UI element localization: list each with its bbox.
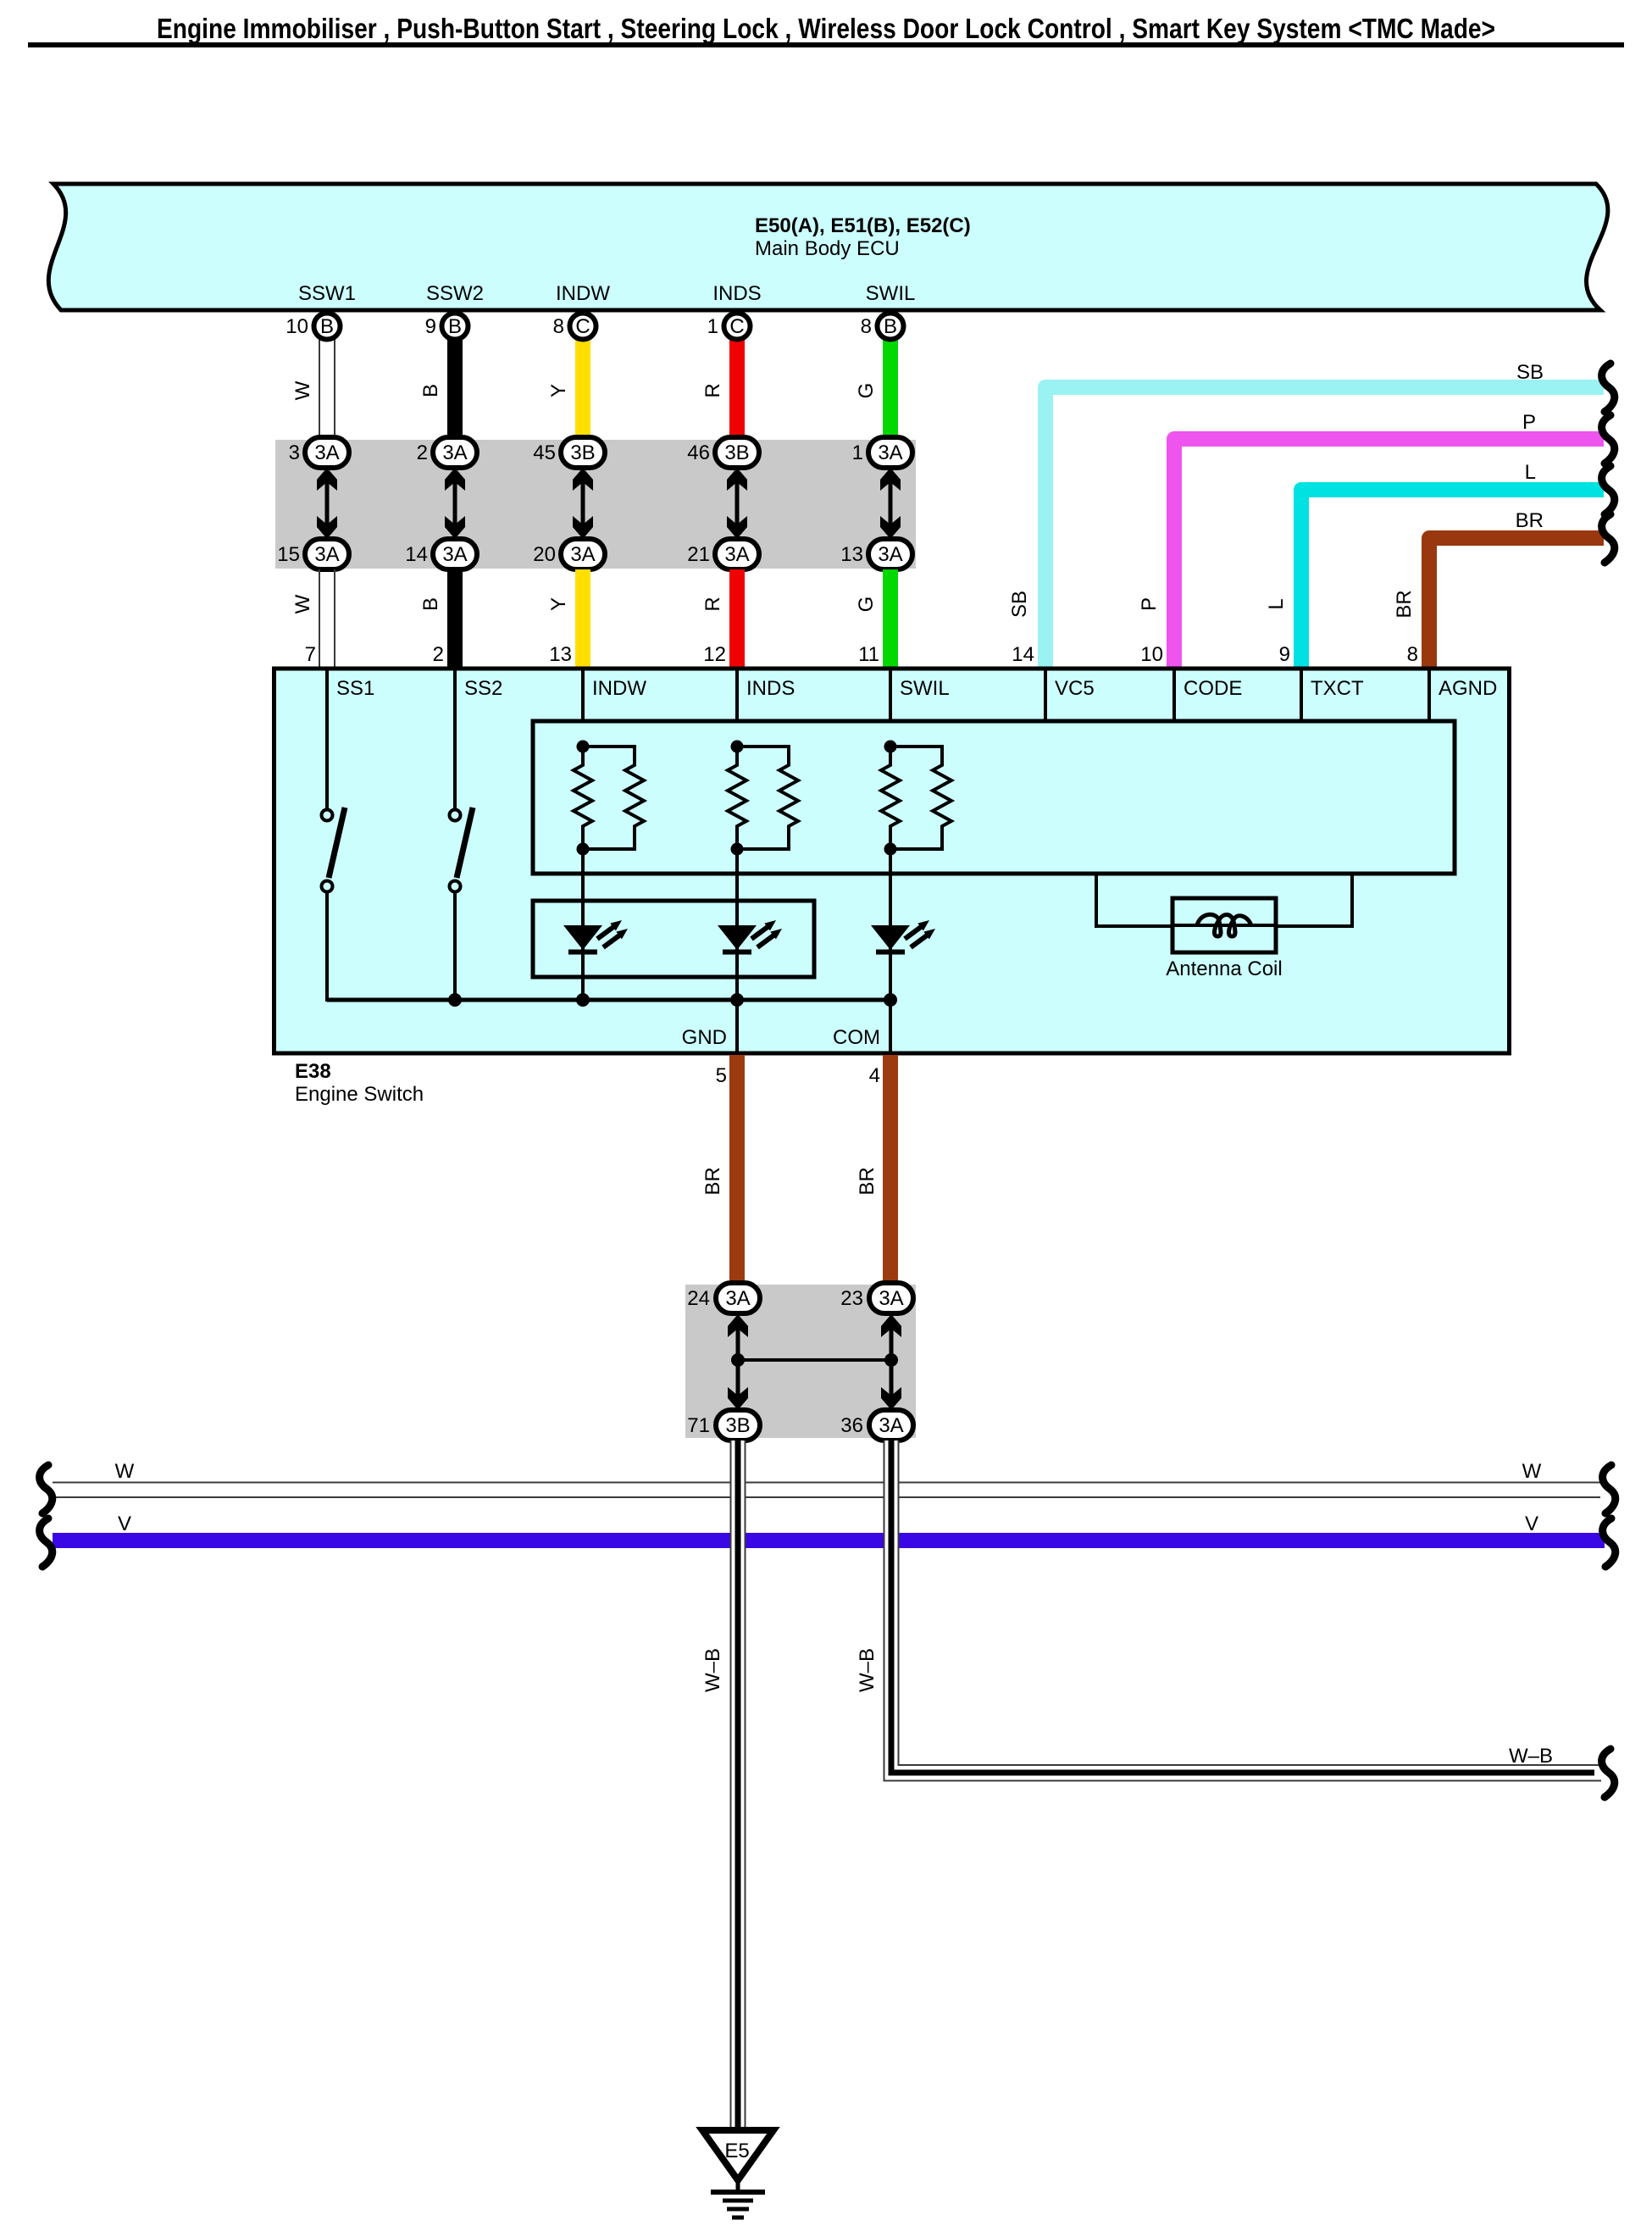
svg-text:P: P: [1138, 597, 1161, 611]
svg-text:B: B: [884, 315, 897, 338]
svg-text:71: 71: [687, 1414, 710, 1437]
svg-text:20: 20: [533, 543, 556, 566]
svg-text:W: W: [291, 594, 314, 613]
svg-text:12: 12: [703, 643, 726, 666]
svg-text:3A: 3A: [878, 441, 902, 464]
svg-text:36: 36: [840, 1414, 863, 1437]
svg-text:2: 2: [417, 441, 428, 464]
svg-text:7: 7: [305, 643, 316, 666]
svg-text:W–B: W–B: [856, 1648, 879, 1692]
svg-text:46: 46: [687, 441, 710, 464]
svg-text:14: 14: [405, 543, 428, 566]
svg-text:1: 1: [707, 315, 718, 338]
svg-text:W: W: [291, 380, 314, 400]
svg-text:SB: SB: [1516, 361, 1544, 384]
svg-text:13: 13: [840, 543, 863, 566]
svg-text:11: 11: [858, 643, 879, 666]
svg-text:3B: 3B: [724, 441, 749, 464]
svg-text:45: 45: [533, 441, 556, 464]
svg-text:10: 10: [285, 315, 308, 338]
svg-text:3A: 3A: [725, 1287, 750, 1310]
svg-text:E5: E5: [724, 2140, 749, 2162]
svg-text:C: C: [729, 315, 744, 338]
svg-text:INDS: INDS: [746, 677, 795, 700]
svg-text:8: 8: [553, 315, 564, 338]
svg-text:INDS: INDS: [712, 282, 761, 305]
svg-text:3A: 3A: [442, 543, 467, 566]
svg-text:3B: 3B: [570, 441, 595, 464]
svg-text:L: L: [1525, 461, 1536, 484]
svg-text:3A: 3A: [570, 543, 595, 566]
svg-text:BR: BR: [701, 1167, 724, 1195]
svg-text:V: V: [118, 1513, 131, 1535]
svg-text:Y: Y: [547, 384, 570, 397]
svg-text:VC5: VC5: [1055, 677, 1095, 700]
svg-text:SSW2: SSW2: [426, 282, 484, 305]
svg-text:9: 9: [425, 315, 436, 338]
svg-text:Antenna Coil: Antenna Coil: [1166, 958, 1282, 980]
svg-text:GND: GND: [682, 1026, 727, 1049]
svg-text:SWIL: SWIL: [900, 677, 950, 700]
svg-text:13: 13: [549, 643, 572, 666]
svg-text:B: B: [448, 315, 462, 338]
svg-text:21: 21: [687, 543, 710, 566]
svg-text:W: W: [115, 1460, 135, 1483]
svg-text:CODE: CODE: [1184, 677, 1242, 700]
svg-text:3A: 3A: [879, 1414, 903, 1437]
svg-text:SWIL: SWIL: [866, 282, 916, 305]
svg-text:2: 2: [433, 643, 444, 666]
svg-text:SS1: SS1: [336, 677, 374, 700]
svg-text:INDW: INDW: [556, 282, 610, 305]
svg-text:3A: 3A: [879, 1287, 903, 1310]
svg-text:B: B: [419, 384, 442, 397]
svg-text:3A: 3A: [314, 441, 339, 464]
svg-text:3A: 3A: [724, 543, 749, 566]
svg-text:9: 9: [1279, 643, 1290, 666]
svg-text:1: 1: [852, 441, 863, 464]
svg-text:3A: 3A: [442, 441, 467, 464]
svg-text:E50(A), E51(B), E52(C): E50(A), E51(B), E52(C): [755, 214, 971, 237]
svg-text:BR: BR: [1393, 590, 1416, 618]
svg-text:3A: 3A: [314, 543, 339, 566]
svg-text:W–B: W–B: [701, 1648, 724, 1692]
svg-text:8: 8: [861, 315, 872, 338]
svg-text:5: 5: [716, 1064, 727, 1087]
svg-text:P: P: [1522, 411, 1536, 434]
svg-text:R: R: [701, 597, 724, 611]
svg-text:B: B: [419, 597, 442, 611]
svg-text:Engine Immobiliser , Push-Butt: Engine Immobiliser , Push-Button Start ,…: [157, 13, 1495, 44]
svg-text:E38: E38: [295, 1060, 331, 1083]
svg-text:W: W: [1522, 1460, 1542, 1483]
svg-text:BR: BR: [856, 1167, 879, 1195]
svg-text:3A: 3A: [878, 543, 902, 566]
svg-text:V: V: [1525, 1513, 1538, 1535]
svg-text:4: 4: [869, 1064, 880, 1087]
svg-text:8: 8: [1407, 643, 1418, 666]
svg-text:COM: COM: [833, 1026, 880, 1049]
svg-text:3: 3: [289, 441, 300, 464]
svg-text:24: 24: [687, 1287, 710, 1310]
svg-text:23: 23: [840, 1287, 863, 1310]
svg-text:AGND: AGND: [1439, 677, 1497, 700]
svg-text:3B: 3B: [725, 1414, 750, 1437]
svg-text:SS2: SS2: [464, 677, 502, 700]
svg-text:Engine Switch: Engine Switch: [295, 1083, 424, 1106]
svg-text:14: 14: [1012, 643, 1034, 666]
svg-text:10: 10: [1140, 643, 1163, 666]
svg-text:G: G: [855, 597, 878, 613]
svg-text:R: R: [701, 383, 724, 397]
svg-text:W–B: W–B: [1509, 1745, 1553, 1768]
svg-text:15: 15: [277, 543, 300, 566]
svg-text:INDW: INDW: [592, 677, 646, 700]
svg-text:C: C: [575, 315, 590, 338]
svg-text:TXCT: TXCT: [1311, 677, 1364, 700]
svg-text:L: L: [1265, 598, 1288, 609]
svg-text:Y: Y: [547, 597, 570, 611]
svg-text:Main Body ECU: Main Body ECU: [755, 237, 900, 260]
svg-text:G: G: [855, 383, 878, 399]
svg-text:SSW1: SSW1: [298, 282, 356, 305]
svg-text:SB: SB: [1008, 591, 1031, 618]
svg-text:BR: BR: [1516, 509, 1544, 532]
svg-text:B: B: [320, 315, 334, 338]
